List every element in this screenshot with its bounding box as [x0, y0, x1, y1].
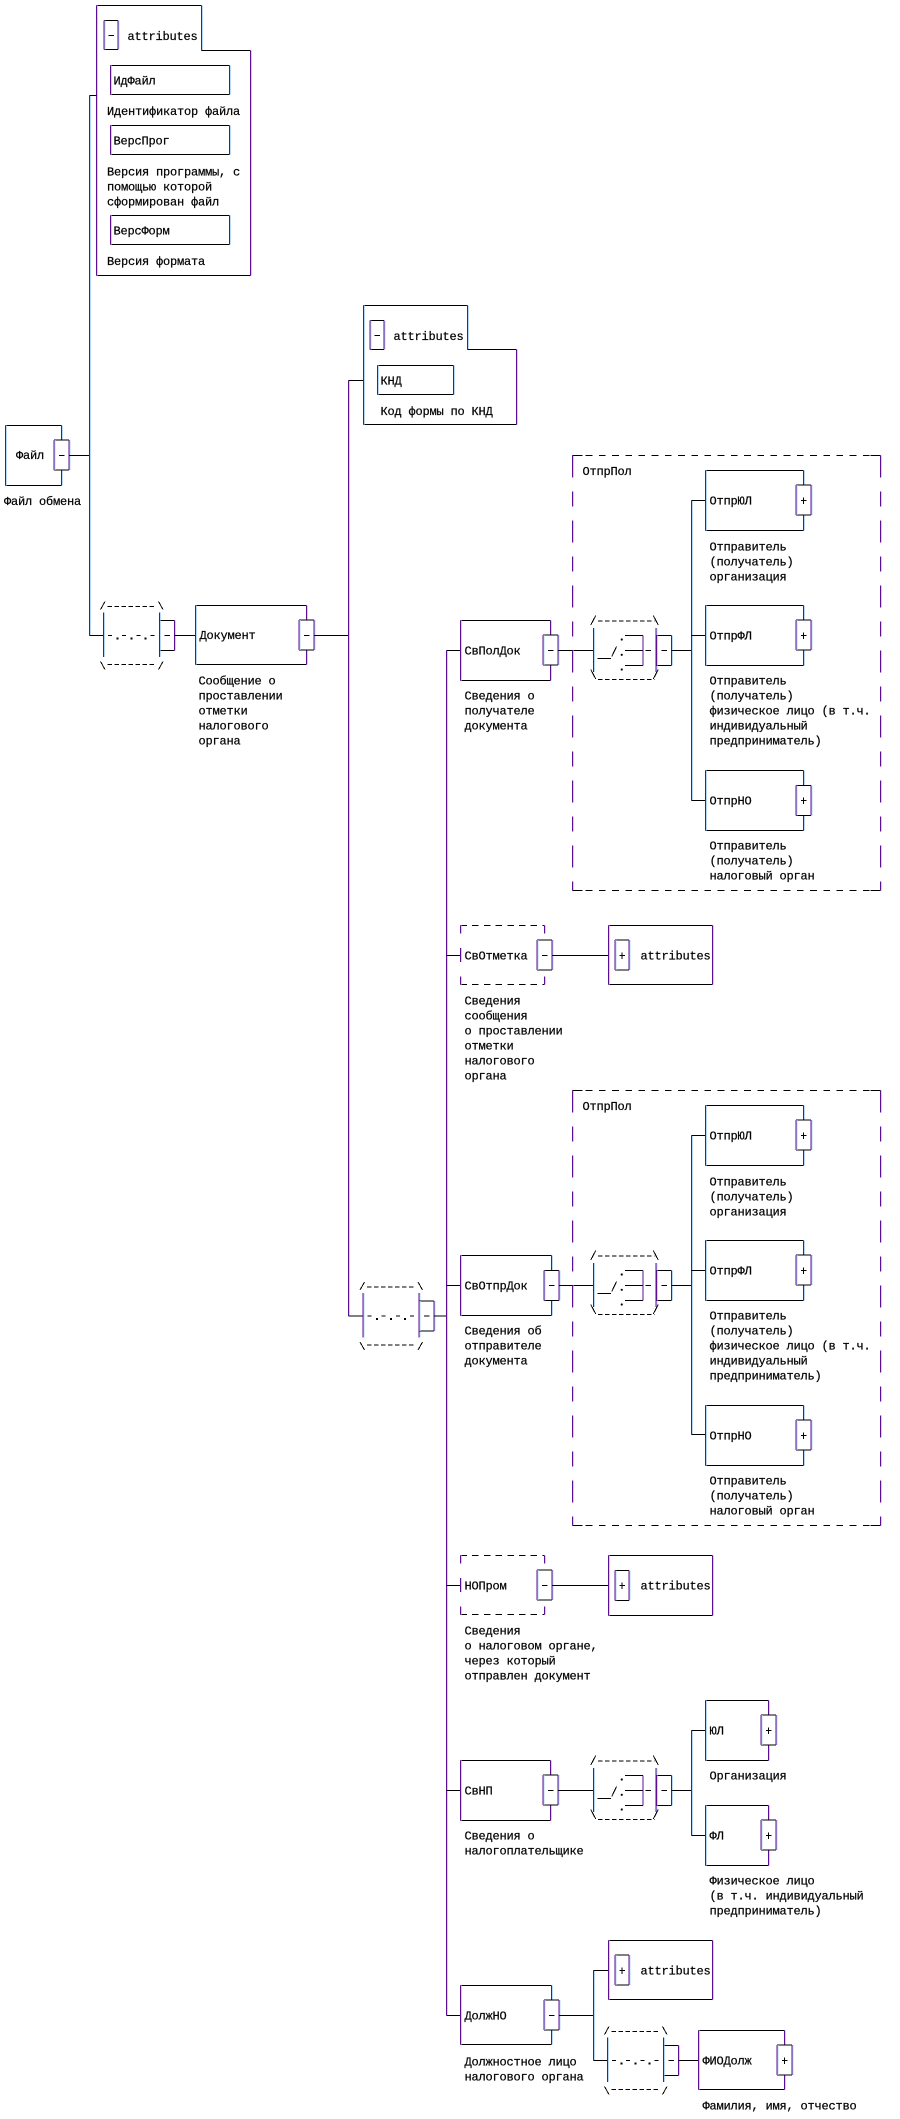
svg-text:attributes: attributes [641, 1965, 711, 1979]
svg-text:предприниматель): предприниматель) [710, 735, 822, 749]
svg-text:Организация: Организация [710, 1770, 787, 1784]
wire СвОтметка to attributes [552, 955, 609, 957]
wire trunk3 vertical [446, 651, 448, 2016]
svg-text:СвНП: СвНП [465, 1785, 493, 1799]
element box ОтпрЮЛ 2 [706, 1105, 804, 1107]
svg-text:через который: через который [465, 1655, 556, 1669]
expander + (ОтпрНО 1) [796, 786, 811, 816]
svg-text:ФИОДолж: ФИОДолж [703, 2055, 753, 2069]
expander - (ДолжНО) [544, 2000, 559, 2030]
wire split to seq3 [594, 2060, 608, 2062]
svg-text:(получатель): (получатель) [710, 1325, 794, 1339]
sequence compositor seq1 [101, 602, 176, 670]
svg-text:НОПром: НОПром [465, 1580, 507, 1594]
svg-text:attributes: attributes [394, 330, 464, 344]
wire СвОтпрДок to choice2 [559, 1285, 593, 1287]
wire trunk to seq1 [90, 635, 104, 637]
svg-text:Код формы по КНД: Код формы по КНД [381, 405, 494, 419]
wire СвПолДок to choice1 [558, 650, 593, 652]
svg-text:ОтпрЮЛ: ОтпрЮЛ [710, 495, 752, 509]
wire choice3 to junction3 [672, 1790, 692, 1792]
expander - (НОПром) [537, 1570, 552, 1600]
expander - (СвОтпрДок) [544, 1271, 559, 1301]
svg-text:получателе: получателе [465, 705, 535, 719]
expander + (ФЛ) [761, 1820, 776, 1850]
svg-text:Версия формата: Версия формата [107, 255, 205, 269]
svg-text:СвОтметка: СвОтметка [465, 950, 528, 964]
svg-text:документа: документа [465, 720, 528, 734]
wire junction2 to ОтпрФЛ 2 [692, 1270, 706, 1272]
element box ОтпрЮЛ 1 [706, 470, 804, 472]
element box ФЛ [706, 1805, 769, 1807]
svg-text:Сведения: Сведения [465, 1625, 521, 1639]
svg-text:ОтпрНО: ОтпрНО [710, 795, 752, 809]
expander + (ЮЛ) [761, 1715, 776, 1745]
element box ОтпрНО 2 [706, 1405, 804, 1407]
svg-text:(получатель): (получатель) [710, 690, 794, 704]
svg-text:проставлении: проставлении [199, 690, 283, 704]
junction2 vertical [691, 1136, 693, 1435]
element box СвПолДок [461, 620, 551, 622]
wire seq3 to ФИОДолж [679, 2060, 699, 2062]
sequence compositor seq2 [360, 1282, 435, 1350]
wire choice2 to junction2 [672, 1285, 692, 1287]
svg-text:ОтпрЮЛ: ОтпрЮЛ [710, 1130, 752, 1144]
svg-text:ИдФайл: ИдФайл [114, 75, 156, 89]
element box ЮЛ [706, 1700, 769, 1702]
attributes group box (Файл) [97, 5, 202, 7]
element box СвОтпрДок [461, 1255, 552, 1257]
wire split to attributes [594, 1970, 609, 1972]
svg-text:attributes: attributes [128, 30, 198, 44]
svg-text:индивидуальный: индивидуальный [710, 1355, 808, 1369]
svg-text:СвОтпрДок: СвОтпрДок [465, 1280, 528, 1294]
svg-text:Отправитель: Отправитель [710, 1310, 787, 1324]
svg-text:налогового: налогового [199, 720, 269, 734]
expander + (attributes СвОтметка) [615, 940, 629, 970]
svg-text:ФЛ: ФЛ [710, 1830, 724, 1844]
attribute box ВерсПрог [111, 125, 230, 127]
dashed element box СвОтметка [461, 925, 545, 927]
svg-text:отправлен документ: отправлен документ [465, 1670, 591, 1684]
attributes box (СвОтметка) [609, 925, 713, 927]
svg-text:налогового: налогового [465, 1055, 535, 1069]
svg-text:органа: органа [199, 735, 241, 749]
wire trunk3 to НОПром [447, 1585, 461, 1587]
choice compositor choice2 [591, 1251, 673, 1315]
element box ДолжНО [461, 1985, 552, 1987]
svg-text:(получатель): (получатель) [710, 1191, 794, 1205]
svg-text:Сообщение о: Сообщение о [199, 675, 276, 689]
svg-text:о налоговом органе,: о налоговом органе, [465, 1640, 598, 1654]
svg-text:СвПолДок: СвПолДок [465, 645, 521, 659]
svg-text:ОтпрПол: ОтпрПол [583, 1100, 632, 1114]
svg-text:Сведения об: Сведения об [465, 1325, 542, 1339]
wire Документ to trunk2 [314, 635, 349, 637]
wire trunk3 to СвОтметка [447, 955, 461, 957]
expander + (attributes НОПром) [615, 1571, 629, 1601]
element box СвНП [461, 1760, 551, 1762]
svg-text:о проставлении: о проставлении [465, 1025, 563, 1039]
element box Документ [196, 605, 307, 607]
choice compositor choice3 [591, 1756, 673, 1820]
wire trunk3 to ДолжНО [447, 2015, 461, 2017]
svg-text:ДолжНО: ДолжНО [465, 2010, 507, 2024]
wire junction1 to ОтпрНО [692, 800, 706, 802]
expander - (СвПолДок) [543, 635, 558, 665]
svg-text:Идентификатор файла: Идентификатор файла [107, 105, 240, 119]
svg-text:Фамилия, имя, отчество: Фамилия, имя, отчество [703, 2100, 857, 2114]
svg-text:предприниматель): предприниматель) [710, 1370, 822, 1384]
svg-text:Сведения о: Сведения о [465, 1830, 535, 1844]
attributes box (НОПром) [609, 1555, 713, 1557]
svg-text:физическое лицо (в т.ч.: физическое лицо (в т.ч. [710, 1340, 871, 1354]
wire junction2 to ОтпрЮЛ 2 [692, 1135, 706, 1137]
wire ДолжНО split [559, 2015, 594, 2017]
svg-text:КНД: КНД [381, 375, 403, 389]
expander + (ОтпрФЛ 1) [796, 620, 811, 650]
wire choice1 to junction1 [672, 650, 692, 652]
svg-text:предприниматель): предприниматель) [710, 1905, 822, 1919]
element box ОтпрФЛ 2 [706, 1240, 804, 1242]
svg-text:налоговый орган: налоговый орган [710, 1505, 815, 1519]
expander + (ОтпрФЛ 2) [796, 1255, 811, 1285]
svg-text:физическое лицо (в т.ч.: физическое лицо (в т.ч. [710, 705, 871, 719]
svg-text:Отправитель: Отправитель [710, 1176, 787, 1190]
attribute box ВерсФорм [111, 215, 230, 217]
svg-text:индивидуальный: индивидуальный [710, 720, 808, 734]
wire trunk Файл vertical [89, 96, 91, 636]
svg-text:отметки: отметки [199, 705, 248, 719]
svg-text:attributes: attributes [641, 1580, 711, 1594]
sequence compositor seq3 [605, 2027, 680, 2095]
svg-text:(получатель): (получатель) [710, 556, 794, 570]
svg-text:сообщения: сообщения [465, 1010, 528, 1024]
wire split vertical [593, 1971, 595, 2061]
wire trunk2 vertical [348, 381, 350, 1317]
svg-text:attributes: attributes [641, 950, 711, 964]
attribute box КНД [378, 365, 454, 367]
wire junction2 to ОтпрНО 2 [692, 1434, 706, 1436]
svg-text:(получатель): (получатель) [710, 855, 794, 869]
wire СвНП to choice3 [558, 1790, 593, 1792]
svg-text:Сведения: Сведения [465, 995, 521, 1009]
svg-text:налогоплательщике: налогоплательщике [465, 1845, 584, 1859]
svg-text:ОтпрФЛ: ОтпрФЛ [710, 1265, 752, 1279]
wire junction3 to ЮЛ [692, 1730, 706, 1732]
wire trunk3 to СвНП [447, 1790, 461, 1792]
wire junction1 to ОтпрФЛ [692, 635, 706, 637]
svg-text:Документ: Документ [200, 629, 256, 643]
svg-text:Файл обмена: Файл обмена [4, 495, 81, 509]
attributes box (ДолжНО) [609, 1940, 713, 1942]
svg-text:организация: организация [710, 1206, 787, 1220]
expander + (attributes ДолжНО) [615, 1955, 629, 1985]
dashed container ОтпрПол 1 [573, 455, 881, 457]
svg-text:(получатель): (получатель) [710, 1490, 794, 1504]
element box ОтпрФЛ 1 [706, 605, 804, 607]
expander + (ФИОДолж) [777, 2045, 792, 2075]
wire trunk2 to attributes КНД [349, 380, 364, 382]
svg-text:ВерсФорм: ВерсФорм [114, 225, 170, 239]
wire junction3 to ФЛ [692, 1835, 706, 1837]
wire НОПром to attributes [552, 1585, 609, 1587]
svg-text:(в т.ч. индивидуальный: (в т.ч. индивидуальный [710, 1890, 864, 1904]
dashed container ОтпрПол 2 [573, 1090, 881, 1092]
svg-text:ВерсПрог: ВерсПрог [114, 135, 170, 149]
expander - (СвОтметка) [537, 940, 552, 970]
wire trunk2 to seq2 [349, 1315, 364, 1317]
svg-text:Версия программы, с: Версия программы, с [107, 166, 240, 180]
wire trunk3 to СвОтпрДок [447, 1285, 461, 1287]
junction1 vertical [691, 501, 693, 801]
svg-text:органа: органа [465, 1070, 507, 1084]
svg-text:отметки: отметки [465, 1040, 514, 1054]
expander + (ОтпрНО 2) [796, 1420, 811, 1450]
element box ОтпрНО 1 [706, 770, 804, 772]
svg-text:налогового органа: налогового органа [465, 2071, 584, 2085]
expander - (attributes КНД) [370, 321, 384, 350]
expander + (ОтпрЮЛ 2) [796, 1120, 811, 1150]
dashed element box НОПром [461, 1555, 545, 1557]
choice compositor choice1 [591, 616, 673, 680]
wire seq1 to Документ [175, 635, 196, 637]
svg-text:ОтпрФЛ: ОтпрФЛ [710, 630, 752, 644]
attribute box ИдФайл [111, 65, 230, 67]
svg-text:помощью которой: помощью которой [107, 181, 212, 195]
expander - (СвНП) [543, 1775, 558, 1805]
wire trunk3 to СвПолДок [447, 650, 461, 652]
svg-text:сформирован файл: сформирован файл [107, 196, 219, 210]
svg-text:организация: организация [710, 571, 787, 585]
attributes group box (КНД) [364, 305, 468, 307]
expander - (Файл) [54, 440, 69, 470]
svg-text:Физическое лицо: Физическое лицо [710, 1875, 815, 1889]
svg-text:налоговый орган: налоговый орган [710, 870, 815, 884]
svg-text:отправителе: отправителе [465, 1340, 542, 1354]
wire junction1 to ОтпрЮЛ [692, 500, 706, 502]
svg-text:ЮЛ: ЮЛ [710, 1725, 724, 1739]
svg-text:Сведения о: Сведения о [465, 690, 535, 704]
expander - (Документ) [299, 620, 314, 650]
wire Файл to trunk [69, 455, 90, 457]
expander - (attributes Файл) [104, 21, 118, 50]
expander + (ОтпрЮЛ 1) [796, 485, 811, 515]
svg-text:ОтпрПол: ОтпрПол [583, 465, 632, 479]
element box Файл [6, 425, 62, 427]
svg-text:Отправитель: Отправитель [710, 1475, 787, 1489]
svg-text:Отправитель: Отправитель [710, 541, 787, 555]
wire seq2 to trunk3 [434, 1315, 447, 1317]
svg-text:ОтпрНО: ОтпрНО [710, 1430, 752, 1444]
wire trunk to attributes group [90, 95, 97, 97]
junction3 vertical [691, 1731, 693, 1836]
element box ФИОДолж [699, 2030, 785, 2032]
svg-text:Отправитель: Отправитель [710, 675, 787, 689]
svg-text:Должностное лицо: Должностное лицо [465, 2056, 577, 2070]
svg-text:Файл: Файл [16, 449, 44, 463]
svg-text:Отправитель: Отправитель [710, 840, 787, 854]
svg-text:документа: документа [465, 1355, 528, 1369]
